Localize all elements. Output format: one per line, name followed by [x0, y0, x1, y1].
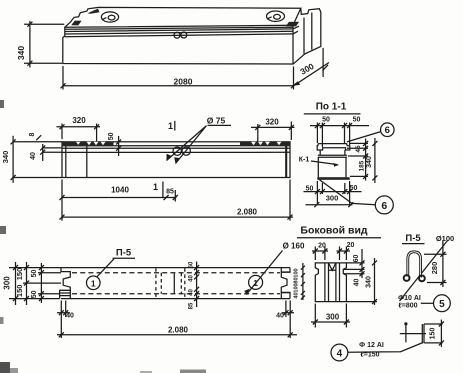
- svg-text:85: 85: [166, 189, 174, 196]
- section upper box verticals: [320, 150, 345, 155]
- svg-text:2080: 2080: [174, 77, 193, 87]
- dim 320 elevation left: [57, 124, 101, 142]
- axonometric recess (dark) front-right: [286, 22, 299, 27]
- svg-text:300: 300: [3, 276, 12, 290]
- plan hidden dashed recess verticals: [156, 268, 185, 298]
- svg-text:1040: 1040: [111, 186, 129, 195]
- svg-text:1: 1: [91, 278, 96, 288]
- plan left dims 150 150: [23, 262, 61, 305]
- hook right curl: [419, 276, 425, 282]
- plan solid mid line: [173, 273, 175, 294]
- svg-text:340: 340: [366, 156, 373, 168]
- callout circle 6 top: [381, 123, 395, 137]
- axonometric recess (dark) front-left: [71, 21, 81, 26]
- side view center wedge: [329, 263, 336, 270]
- svg-text:80: 80: [294, 277, 300, 283]
- dim 340 axonometric left: [24, 21, 64, 68]
- svg-text:1: 1: [168, 121, 173, 131]
- plan bottom dim 40 right: [282, 301, 294, 339]
- section bottom flange (dark band): [317, 177, 349, 180]
- svg-text:П-5: П-5: [405, 233, 421, 244]
- plan bottom dim 40 left: [57, 301, 70, 339]
- svg-text:40: 40: [276, 313, 284, 320]
- svg-text:20: 20: [318, 243, 326, 250]
- detail 4 bar (vertical with end marks): [405, 323, 407, 342]
- plan right end plates: [280, 268, 282, 273]
- svg-text:40: 40: [354, 279, 361, 287]
- svg-text:100: 100: [294, 283, 300, 292]
- callout circle 5: [434, 295, 451, 312]
- svg-text:Ø 75: Ø 75: [207, 115, 226, 125]
- svg-text:ℓ=800: ℓ=800: [398, 303, 417, 310]
- scan edge smudges: [0, 100, 206, 373]
- svg-text:300: 300: [298, 61, 316, 77]
- section lower box: [318, 157, 346, 177]
- plan view outline: [61, 268, 290, 299]
- plan left dim 300: [9, 262, 61, 305]
- elevation left double edge: [65, 142, 67, 178]
- svg-text:40: 40: [30, 152, 37, 160]
- axonometric view: beam front face: [63, 25, 293, 64]
- callout circle 6 bottom: [375, 196, 393, 214]
- svg-text:150: 150: [430, 328, 437, 340]
- svg-text:50: 50: [353, 116, 361, 123]
- side view outline with keyway notches: [315, 263, 346, 302]
- plan hidden dashed lines longitudinal: [72, 273, 280, 294]
- lifting loop 1 (spiral): [101, 12, 118, 22]
- dim 340 elevation left: [13, 136, 62, 183]
- svg-text:4: 4: [337, 348, 343, 359]
- svg-text:ℓ=150: ℓ=150: [360, 351, 379, 358]
- section bottom dim 300: [306, 204, 353, 206]
- hook left curl: [404, 275, 410, 281]
- side view title underline: [297, 237, 381, 239]
- section title underline: [304, 113, 361, 115]
- svg-text:50: 50: [306, 186, 314, 193]
- svg-text:1: 1: [253, 278, 258, 288]
- front elevation outline: [62, 142, 290, 178]
- svg-text:5: 5: [439, 299, 445, 310]
- section right dim 340: [374, 138, 376, 183]
- leader circle 4 to bar: [348, 343, 423, 353]
- svg-text:50: 50: [31, 270, 38, 278]
- detail dim 280: [424, 241, 447, 287]
- svg-text:50: 50: [322, 116, 330, 123]
- section bottom dims 50 50: [304, 181, 362, 205]
- plan left end profile: [60, 268, 71, 299]
- side view dim 60 40 right: [343, 249, 364, 278]
- svg-text:Ø100: Ø100: [436, 234, 454, 243]
- svg-text:280: 280: [430, 262, 439, 275]
- svg-text:50: 50: [108, 132, 115, 140]
- svg-text:6: 6: [385, 125, 390, 136]
- svg-text:320: 320: [72, 116, 86, 125]
- detail 4 dim 150: [424, 320, 443, 347]
- callout circle 1 right: [249, 275, 263, 289]
- plan right end profile: [281, 268, 290, 299]
- elevation band lines: [62, 145, 290, 147]
- leader to circle 5: [421, 302, 434, 304]
- axonometric two small holes: [174, 32, 180, 38]
- svg-text:По 1-1: По 1-1: [316, 102, 347, 113]
- svg-text:320: 320: [265, 117, 279, 126]
- svg-text:40: 40: [189, 275, 195, 282]
- svg-text:50: 50: [350, 185, 358, 192]
- elevation anchor band dark left: [62, 142, 114, 147]
- svg-text:20: 20: [347, 242, 355, 249]
- svg-text:150: 150: [15, 285, 24, 298]
- axonometric front face chamfer band lines: [65, 29, 293, 37]
- elevation holes d75: [173, 147, 181, 155]
- svg-text:1: 1: [153, 182, 158, 192]
- dim 300 axonometric slanted: [294, 48, 330, 86]
- svg-text:6: 6: [381, 200, 387, 212]
- svg-text:100: 100: [294, 268, 300, 277]
- svg-text:П-5: П-5: [116, 248, 132, 259]
- side view dim 20 right: [337, 247, 351, 261]
- lifting loop detail (hook): [408, 252, 421, 278]
- side view dim 300 bottom: [311, 304, 350, 328]
- svg-text:185: 185: [359, 160, 366, 171]
- side view dim 340 right: [346, 258, 377, 305]
- axonometric thick band line: [65, 27, 293, 29]
- side view dim 20 left: [312, 247, 328, 261]
- axonometric right end face: [293, 8, 321, 64]
- svg-text:Ф10 АΙ: Ф10 АΙ: [398, 295, 421, 302]
- section middle band: [318, 155, 347, 157]
- axonometric top face outline: [65, 7, 301, 27]
- mini dim 50 elevation: [118, 136, 120, 156]
- svg-text:45: 45: [355, 145, 362, 153]
- callout circle 1 left: [87, 276, 101, 290]
- svg-text:85: 85: [189, 302, 195, 309]
- axonometric recess (dark) back-left: [88, 9, 100, 14]
- plan left end hatched plate: [60, 290, 71, 298]
- svg-text:40: 40: [294, 292, 300, 298]
- svg-text:К-1: К-1: [299, 157, 310, 164]
- svg-text:Ø 160: Ø 160: [283, 242, 305, 251]
- svg-text:50: 50: [189, 261, 195, 268]
- svg-text:150: 150: [15, 268, 24, 281]
- detail long leader: [400, 241, 448, 302]
- plan dim 2080: [57, 334, 297, 336]
- svg-text:60: 60: [353, 255, 360, 263]
- svg-text:340: 340: [1, 151, 10, 164]
- dim 2080 elevation: [62, 180, 293, 221]
- svg-text:40: 40: [66, 313, 74, 320]
- svg-text:Ф 12 АΙ: Ф 12 АΙ: [359, 342, 384, 349]
- section left lip: [317, 146, 350, 150]
- mini dim 85 elevation: [164, 195, 169, 200]
- callout circle 4: [331, 344, 348, 361]
- svg-text:Боковой вид: Боковой вид: [300, 225, 368, 237]
- elevation anchor band dark right: [240, 142, 290, 147]
- svg-text:300: 300: [326, 312, 340, 321]
- dim 2080 axonometric: [63, 66, 294, 90]
- section top dim 50 50: [310, 123, 369, 148]
- elevation end notch hidden lines: [87, 142, 287, 178]
- svg-text:40: 40: [189, 289, 195, 296]
- svg-text:50: 50: [31, 290, 38, 298]
- svg-text:2.080: 2.080: [168, 325, 189, 334]
- svg-text:300: 300: [326, 194, 339, 203]
- lifting loop 2 (spiral): [267, 11, 285, 21]
- svg-text:2.080: 2.080: [237, 208, 258, 217]
- svg-text:8: 8: [29, 132, 36, 136]
- section right dim 45 and 185: [347, 139, 368, 181]
- plan left dims 50 50: [38, 263, 61, 303]
- dim 320 elevation right: [251, 122, 295, 142]
- plan mini dim chain 50 40 40 85: [196, 262, 198, 308]
- section top band: [318, 143, 347, 145]
- dim 1040 elevation: [62, 180, 177, 202]
- side view inner verticals: [325, 263, 340, 302]
- svg-text:340: 340: [16, 46, 26, 60]
- transverse dim chain 100 80 100 40: [302, 263, 304, 300]
- dim 40 elevation left: [43, 144, 62, 161]
- svg-text:340: 340: [366, 276, 373, 288]
